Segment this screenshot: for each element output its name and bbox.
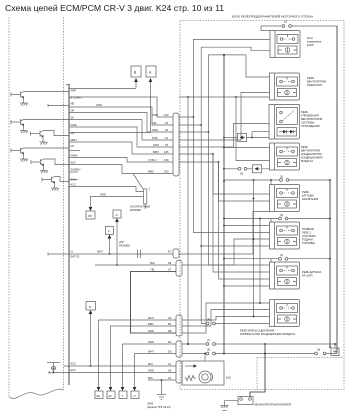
svg-text:FANL: FANL: [71, 123, 78, 127]
svg-text:РЕЛЕ: РЕЛЕ: [302, 190, 309, 194]
wire S8 row up to K6 coil: [182, 239, 270, 265]
relay K3 cooling fans control: [269, 105, 300, 140]
svg-text:LT BLU: LT BLU: [148, 158, 157, 162]
svg-text:(9): (9): [317, 348, 320, 352]
svg-text:(СИСТЕМА: (СИСТЕМА: [302, 234, 316, 238]
transistor Q1: [11, 92, 24, 104]
wire BLU A1 row: [64, 365, 176, 367]
battery bus top joint: [264, 344, 266, 354]
svg-text:ВЕНТИЛЯТОРОВ: ВЕНТИЛЯТОРОВ: [301, 117, 323, 121]
svg-text:GRN: GRN: [100, 193, 106, 197]
wire battery positive to bus: [250, 354, 265, 397]
svg-text:ELD: ELD: [71, 368, 76, 372]
wire row F17 down to K5 coil: [179, 162, 270, 201]
svg-text:Реле: Реле: [307, 36, 313, 40]
wire ETCSRLY row to F10: [69, 97, 173, 117]
wire row ETCSRLY straight to K2 contact: [179, 96, 270, 98]
svg-text:КОМПРЕССОРА КОНДИЦИОНЕРА ВОЗДУ: КОМПРЕССОРА КОНДИЦИОНЕРА ВОЗДУХА: [240, 332, 295, 336]
wire ORN A3 row: [49, 371, 176, 374]
harness bracket S8/S7: [176, 261, 182, 277]
svg-text:Y: Y: [122, 394, 124, 398]
wire BLK A2 row: [148, 379, 176, 381]
svg-text:(7): (7): [207, 338, 210, 342]
svg-text:БЛОК РЕЛЕ/ПРЕДОХРАНИТЕЛЕЙ МОТО: БЛОК РЕЛЕ/ПРЕДОХРАНИТЕЛЕЙ МОТОРНОГО ОТСЕ…: [232, 15, 313, 19]
svg-text:BLU: BLU: [148, 362, 153, 366]
harness bracket for E7: [173, 249, 179, 258]
relay K6 main relay 1: [270, 222, 300, 249]
wire bus tap K8: [201, 323, 269, 325]
svg-text:F20: F20: [164, 170, 169, 174]
wire corner B: row F6 up and to K1 wire2: [179, 47, 270, 125]
wire BRN B1 row to box AF: [111, 326, 177, 389]
ELD arrow: [185, 365, 195, 367]
wire AMP up to box B with arrow: [135, 80, 137, 89]
svg-text:S: S: [116, 213, 118, 217]
relay K5 ignition coil relay: [270, 185, 300, 212]
svg-text:КОНДИЦИОНЕРА: КОНДИЦИОНЕРА: [301, 156, 323, 160]
svg-text:(3): (3): [280, 213, 283, 217]
wire V F18 extension down to K7: [212, 153, 214, 155]
page-ref box B: [131, 66, 141, 77]
wire K1 top feed (1) to bus: [261, 26, 337, 31]
svg-text:BLU: BLU: [150, 261, 155, 265]
wire K7 top feed (4): [224, 258, 330, 260]
svg-text:РЕЛЕ ДАТЧИКА: РЕЛЕ ДАТЧИКА: [302, 270, 322, 274]
wire corner A: row F9 up to K1 wire1: [179, 39, 270, 117]
svg-text:WHT: WHT: [148, 316, 154, 320]
svg-text:(6): (6): [207, 348, 210, 352]
svg-text:РЕЛЕ: РЕЛЕ: [301, 110, 308, 114]
svg-text:ЗАЖИГАНИЯ: ЗАЖИГАНИЯ: [302, 197, 318, 201]
svg-text:ВЕНТИЛЯТОРА: ВЕНТИЛЯТОРА: [307, 80, 326, 84]
wire bottom row (7): [182, 343, 337, 345]
vertical bus main inner: [223, 55, 225, 354]
svg-text:F18: F18: [164, 158, 169, 162]
CI / SHTCS pin stub: [48, 253, 69, 256]
svg-text:(4): (4): [280, 253, 283, 257]
NE pin stub: [48, 104, 69, 107]
svg-text:F: F: [108, 230, 110, 234]
wire bus tap to diode DZ1: [223, 137, 225, 139]
harness bracket A1/A3/A2: [176, 361, 182, 383]
wire AB pin up to box A with arrow: [69, 80, 151, 133]
svg-text:F10: F10: [164, 113, 169, 117]
wire ACC to 9-pin connector: [69, 187, 144, 192]
wire YEL S7 row, left end turns down to D8 row: [131, 272, 177, 334]
relay K4 condenser fan: [270, 143, 300, 170]
svg-text:S8: S8: [168, 261, 172, 265]
svg-text:H3: H3: [168, 316, 172, 320]
wire NC stub: [69, 150, 80, 152]
wire battery negative to ground: [225, 401, 239, 406]
svg-text:YEL: YEL: [152, 121, 157, 125]
svg-text:CI: CI: [71, 250, 74, 254]
wire bus tap K4 contact: [223, 147, 225, 149]
svg-text:WHT: WHT: [148, 350, 154, 354]
svg-text:ВОЗДУХА: ВОЗДУХА: [301, 159, 313, 163]
wire ELD top to row (6): [204, 354, 206, 362]
svg-text:АККУМУЛЯТОРНАЯ БАТАРЕЯ: АККУМУЛЯТОРНАЯ БАТАРЕЯ: [254, 403, 291, 407]
ELD motor circle: [199, 371, 211, 383]
wire relay-bank left feeder 2: [259, 219, 261, 304]
wire bottom row (6) (9): [182, 353, 337, 355]
svg-text:MRLY: MRLY: [71, 138, 78, 142]
page-ref box U: [131, 391, 139, 399]
relay K8 A/C compressor clutch relay: [270, 300, 300, 327]
svg-text:A2: A2: [168, 376, 172, 380]
svg-text:СИСТЕМЫ: СИСТЕМЫ: [301, 121, 315, 125]
wire NE/ORN row to F9: [69, 107, 173, 125]
svg-text:ETCSRLY: ETCSRLY: [71, 96, 83, 100]
wire vertical V1 extension down to K6: [193, 116, 195, 118]
wire FANH row to F18: [69, 158, 173, 163]
svg-text:NE: NE: [71, 102, 75, 106]
svg-text:SUBRLY: SUBRLY: [71, 168, 81, 172]
svg-text:PUR: PUR: [152, 136, 158, 140]
svg-text:ВЕНТИЛЯТОРА: ВЕНТИЛЯТОРА: [301, 149, 320, 153]
wire H3 row up to K8: [182, 317, 270, 321]
wire MRLY row to F15: [69, 142, 173, 154]
ground G402: [157, 380, 166, 400]
wire D8 row up to K8 contact: [182, 303, 270, 333]
svg-text:WHT: WHT: [97, 250, 103, 254]
transistor Q6: [42, 177, 55, 189]
svg-text:ACC: ACC: [71, 183, 77, 187]
bus right main: [336, 26, 338, 354]
wire V2 extension down to K6 coil return: [200, 124, 202, 126]
fuse box small right: [334, 344, 336, 348]
svg-text:AF: AF: [108, 394, 112, 398]
svg-text:РЕЛЕ: РЕЛЕ: [307, 76, 314, 80]
wire AMP horizontal: [69, 88, 136, 90]
svg-text:ORN: ORN: [96, 103, 102, 107]
svg-text:РАЗЪЕМ: РАЗЪЕМ: [130, 208, 141, 212]
relay K2 radiator fan: [270, 73, 300, 100]
page-ref box F: [106, 227, 114, 235]
wire bus tap through connector (5) and diode DZ2 to K4 coil: [223, 168, 225, 170]
svg-text:ORN: ORN: [152, 128, 158, 132]
svg-text:ТОПЛИВА): ТОПЛИВА): [302, 241, 315, 245]
relay K1 EVAP control: [270, 31, 300, 58]
wire K3 coil return: [252, 132, 270, 138]
svg-text:2H: 2H: [71, 116, 74, 120]
svg-text:FANH: FANH: [71, 154, 78, 158]
svg-text:РЕЛЕ МУФТЫ СЦЕПЛЕНИЯ: РЕЛЕ МУФТЫ СЦЕПЛЕНИЯ: [240, 329, 274, 333]
svg-text:NC: NC: [71, 144, 75, 148]
svg-text:(8): (8): [207, 318, 210, 322]
wire K6 contact row from bus: [223, 225, 225, 227]
svg-text:OP: OP: [71, 109, 75, 113]
wire DZ1 out to K3 coil: [247, 137, 270, 139]
page-ref box Y: [119, 391, 127, 399]
wire BLU S8 row: [95, 264, 176, 266]
wire K5 top feed (2): [223, 180, 225, 182]
wire Q5 stepped to pin: [44, 159, 70, 165]
ELD unit box: [182, 361, 224, 385]
wire 2H row to F1: [69, 120, 173, 141]
svg-text:A3: A3: [168, 369, 172, 373]
wire vertical from ETCSRLY row down to K4: [235, 96, 237, 98]
wire WHT row through 20P connector: [69, 253, 173, 255]
pin stub SH8: [69, 179, 78, 181]
svg-text:YEL: YEL: [150, 268, 155, 272]
svg-text:U: U: [134, 394, 136, 398]
svg-text:ORN: ORN: [148, 340, 154, 344]
svg-text:9-КОНТАКТНЫЙ: 9-КОНТАКТНЫЙ: [130, 205, 150, 209]
svg-text:УПРАВЛЕНИЯ: УПРАВЛЕНИЯ: [301, 114, 319, 118]
svg-text:AMP: AMP: [71, 89, 77, 93]
wire up into box S: [116, 220, 118, 265]
wire OP row to F6: [69, 113, 173, 133]
diode box DZ1: [238, 134, 247, 142]
wire bus tap K7 coil return: [223, 285, 225, 287]
harness connector strip upper: [173, 113, 179, 176]
wire ORN D4 row to box Y: [123, 344, 177, 389]
relay K7 AF sensor relay: [270, 262, 300, 289]
wire Q6 to pin: [55, 177, 70, 182]
wire B1 row up to K8 coil: [182, 310, 270, 327]
svg-text:AF (LAF): AF (LAF): [302, 274, 313, 278]
pin stub SUBRLY: [69, 171, 78, 173]
page-ref box AF: [107, 391, 115, 399]
svg-text:РЕЛЕ 1: РЕЛЕ 1: [302, 231, 312, 235]
svg-text:K8: K8: [88, 214, 92, 218]
svg-text:(5): (5): [240, 172, 243, 176]
wire E7 row up to K5 lower contact: [179, 212, 270, 255]
svg-text:BLK: BLK: [148, 376, 153, 380]
svg-text:SHTCS: SHTCS: [71, 255, 80, 259]
svg-text:AE: AE: [96, 394, 100, 398]
20P connector: [138, 250, 141, 259]
wire WHT D6 row to box U: [135, 354, 177, 390]
svg-text:ELD: ELD: [226, 376, 231, 380]
pin number labels upper: [164, 113, 169, 174]
wire colour labels upper: [148, 113, 159, 162]
bus2 right vertical: [329, 180, 331, 347]
wire row F15 to K3 contact: [179, 124, 270, 148]
svg-text:D8: D8: [168, 329, 172, 333]
svg-text:F15: F15: [164, 150, 169, 154]
transistor Q3: [31, 131, 44, 143]
wire FANL row to F5: [69, 127, 173, 147]
transistor Q2: [11, 119, 24, 131]
wire corner C: row F1 up and to K2 wire1: [179, 55, 270, 132]
wire Q1 collector to AMP pin: [24, 91, 70, 93]
svg-text:ACF: ACF: [71, 161, 77, 165]
svg-text:GRN: GRN: [148, 329, 154, 333]
svg-text:ACS: ACS: [71, 362, 77, 366]
svg-text:B1: B1: [168, 322, 172, 326]
pin labels ECM: [71, 89, 83, 187]
svg-text:(1): (1): [284, 20, 287, 24]
wire GRN from 9-pin to box K8: [91, 197, 144, 210]
9-pin connector: [144, 189, 147, 204]
svg-text:ПОДАЧИ: ПОДАЧИ: [302, 238, 313, 242]
wire WHT H3 row to box AE: [99, 320, 177, 389]
svg-text:GRN: GRN: [153, 143, 159, 147]
battery: [238, 397, 253, 405]
svg-text:(модели ТРК 03-01): (модели ТРК 03-01): [147, 405, 171, 409]
svg-text:РАДИАТОРА: РАДИАТОРА: [307, 83, 323, 87]
wire ACF/RED row to F20 and 9-pin connector: [69, 165, 173, 174]
wire Q2 collector to pin: [24, 119, 70, 121]
lamp/diode to rail inside ECM: [47, 363, 60, 373]
wire up into box R from A1 row: [90, 312, 92, 366]
svg-text:КОНДЕНСАТОРА: КОНДЕНСАТОРА: [301, 152, 322, 156]
transistor Q4: [11, 148, 24, 160]
page-ref box AE: [95, 391, 103, 399]
svg-text:КАТУШЕК: КАТУШЕК: [302, 194, 314, 198]
under-hood fuse/relay box (dashed): [180, 21, 344, 390]
harness bracket H3/B1/D8: [176, 315, 182, 336]
wire row F18 long down to K5: [179, 154, 270, 194]
diode box DZ2: [253, 165, 262, 173]
svg-text:AB: AB: [71, 131, 75, 135]
harness bracket D4/D6: [176, 341, 182, 357]
wire row F5 to K2 coil: [179, 93, 270, 141]
ECM connector pin bar: [68, 84, 70, 385]
svg-text:20Р: 20Р: [119, 240, 124, 244]
svg-text:BRN: BRN: [148, 322, 154, 326]
transistor Q5: [31, 159, 44, 171]
wire V F17 extension down to K7 coil: [218, 161, 220, 163]
page-ref box A: [146, 66, 156, 77]
wire V3 extension down to K7: [208, 131, 210, 133]
svg-text:G402: G402: [147, 402, 154, 406]
svg-text:EVAP: EVAP: [307, 43, 314, 47]
pin labels bottom: [168, 316, 172, 380]
svg-text:E7: E7: [168, 250, 172, 254]
ECM/PCM box (dashed): [8, 17, 10, 397]
page-ref box S: [113, 210, 121, 218]
svg-text:ORN: ORN: [148, 369, 154, 373]
svg-text:D4: D4: [168, 340, 172, 344]
svg-text:RED: RED: [148, 170, 154, 174]
wire Q3 stepped to pin: [43, 131, 69, 136]
wire long vertical from ETCSRLY row down to bottom row: [187, 96, 189, 98]
wire relay-bank left feeder 1: [253, 180, 255, 317]
ECM torn bottom edge: [9, 389, 64, 398]
wire K6 top feed (3): [224, 218, 330, 220]
page-ref box R: [86, 302, 96, 311]
colour labels bottom: [148, 316, 154, 380]
svg-text:РЕЛЕ: РЕЛЕ: [301, 145, 308, 149]
svg-text:(2): (2): [280, 175, 283, 179]
wire Q4 collector to pin: [24, 147, 70, 149]
svg-text:ОХЛАЖДЕНИЯ: ОХЛАЖДЕНИЯ: [301, 124, 320, 128]
svg-text:ORN: ORN: [152, 113, 158, 117]
svg-text:Схема цепей ECM/PCM CR-V 3 дви: Схема цепей ECM/PCM CR-V 3 двиг. K24 стр…: [5, 3, 224, 13]
svg-text:РАЗЪЕМ: РАЗЪЕМ: [119, 244, 130, 248]
page-ref box K8: [86, 211, 95, 219]
svg-text:ГЛАВНОЕ: ГЛАВНОЕ: [302, 227, 314, 231]
ground G1 battery: [221, 406, 229, 411]
svg-text:A1: A1: [168, 362, 172, 366]
wire up into box F: [109, 237, 111, 255]
svg-text:S7: S7: [168, 268, 172, 272]
svg-text:BRN: BRN: [153, 150, 159, 154]
ELD resistor: [185, 376, 197, 381]
svg-text:D6: D6: [168, 350, 172, 354]
